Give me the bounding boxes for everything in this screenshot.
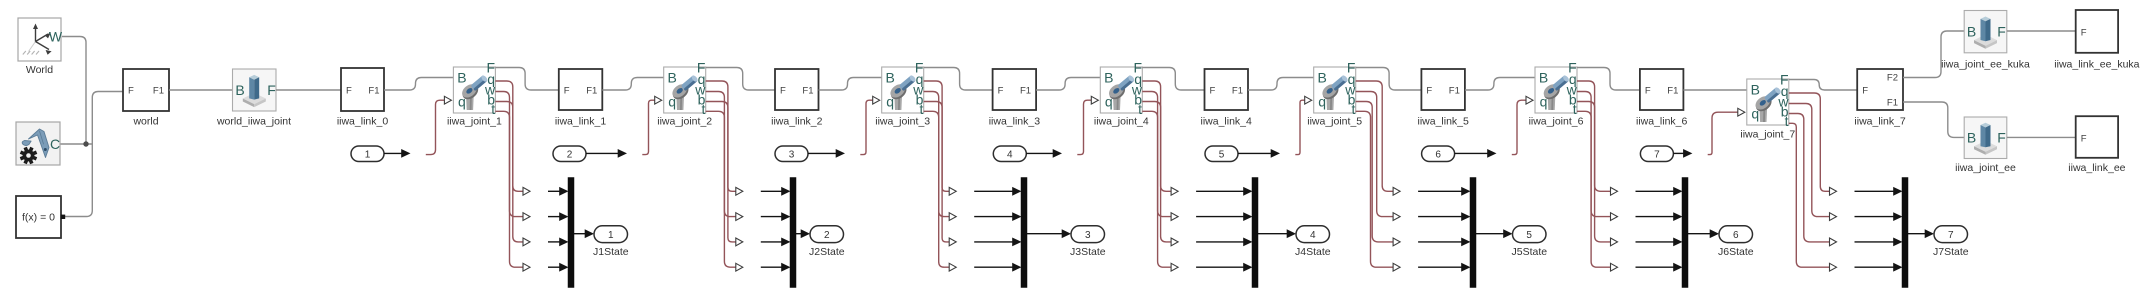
wire iiwa_link_5 F1 to iiwa_joint_6 B — [1465, 78, 1535, 91]
svg-text:J1State: J1State — [593, 246, 629, 258]
wire ps signal to iiwa_joint_2 q — [642, 100, 654, 154]
wire iiwa_joint_6 F to iiwa_link_6 F — [1577, 68, 1640, 91]
wire iiwa_joint_5 t to mux — [1356, 111, 1394, 267]
svg-text:F1: F1 — [1667, 86, 1678, 97]
wire ps signal to iiwa_joint_1 q — [426, 100, 445, 154]
block iiwa_link_0 — [337, 68, 389, 127]
mux J2 — [790, 178, 796, 288]
svg-text:iiwa_joint_ee: iiwa_joint_ee — [1955, 162, 2016, 174]
wire iiwa_joint_1 t to mux — [495, 111, 523, 267]
svg-text:iiwa_link_1: iiwa_link_1 — [555, 115, 607, 127]
svg-text:q: q — [1318, 93, 1326, 109]
svg-text:q: q — [886, 93, 894, 109]
wire signal into mux J7 — [1855, 266, 1896, 268]
svg-text:F1: F1 — [1232, 86, 1243, 97]
block iiwa_link_ee — [2068, 116, 2125, 174]
wire signal into mux J1 — [548, 241, 561, 243]
mux J3 — [1021, 178, 1027, 288]
mux J5 — [1470, 178, 1476, 288]
wire signal into mux J7 — [1855, 241, 1896, 243]
block world — [123, 69, 169, 127]
svg-text:F: F — [1645, 86, 1651, 97]
svg-text:B: B — [1104, 69, 1113, 85]
svg-text:q: q — [1751, 105, 1759, 121]
svg-text:4: 4 — [1310, 230, 1316, 241]
wire Mechanism C to bus — [60, 143, 92, 145]
wire signal into mux J1 — [548, 190, 561, 192]
wire signal into mux J4 — [1196, 241, 1245, 243]
wire signal into mux J6 — [1636, 216, 1676, 218]
svg-text:F1: F1 — [1887, 97, 1898, 108]
wire signal into mux J4 — [1196, 190, 1245, 192]
wire iiwa_link_7 F1 to iiwa_joint_ee B — [1903, 102, 1964, 137]
svg-text:World: World — [26, 64, 53, 76]
svg-text:F1: F1 — [153, 86, 164, 97]
mux J1 — [568, 178, 574, 288]
mux J6 — [1682, 178, 1688, 288]
wire World W to bus — [62, 37, 86, 145]
link block iiwa_link_1 — [555, 69, 607, 127]
wire iiwa_joint_5 w to mux — [1356, 92, 1394, 217]
svg-text:B: B — [1967, 130, 1976, 146]
svg-text:q: q — [458, 93, 466, 109]
svg-text:W: W — [49, 29, 63, 45]
wire iiwa_joint_3 b to mux — [924, 102, 950, 242]
svg-text:F1: F1 — [1449, 86, 1460, 97]
wire iiwa_joint_7 q to mux — [1789, 93, 1830, 191]
wire iiwa_joint_2 q to mux — [706, 81, 737, 191]
wire inport 7 arrow — [1673, 152, 1684, 154]
wire iiwa_link_2 F1 to iiwa_joint_3 B — [819, 78, 882, 91]
wire world F1 to world_iiwa_joint B — [169, 89, 233, 91]
svg-text:iiwa_link_ee: iiwa_link_ee — [2068, 162, 2125, 174]
outport J4State — [1296, 226, 1330, 243]
svg-text:F: F — [780, 86, 786, 97]
wire iiwa_link_0 F1 to iiwa_joint_1 B — [384, 78, 453, 91]
wire ps signal to iiwa_joint_3 q — [860, 100, 872, 154]
wire inport 3 arrow — [808, 152, 837, 154]
svg-text:B: B — [1967, 24, 1976, 40]
wire ps signal to iiwa_joint_6 q — [1512, 100, 1526, 154]
wire iiwa_joint_2 t to mux — [706, 111, 737, 267]
svg-text:J6State: J6State — [1718, 246, 1754, 258]
joint block iiwa_joint_7 — [1740, 72, 1795, 141]
outport J1State — [594, 226, 628, 243]
wire mux to outport J3State — [1027, 233, 1063, 235]
inport 1 — [351, 146, 384, 162]
wire signal into mux J2 — [761, 266, 783, 268]
wire iiwa_joint_4 q to mux — [1142, 81, 1171, 191]
wire mux to outport J1State — [574, 233, 586, 235]
wire signal into mux J2 — [761, 190, 783, 192]
wire signal into mux J5 — [1418, 216, 1463, 218]
wire iiwa_joint_1 w to mux — [495, 92, 523, 217]
joint block iiwa_joint_6 — [1529, 60, 1584, 128]
wire iiwa_joint_4 F to iiwa_link_4 F — [1142, 68, 1204, 91]
wire iiwa_joint_2 b to mux — [706, 102, 737, 242]
svg-text:5: 5 — [1219, 149, 1225, 160]
svg-text:F: F — [2081, 133, 2087, 144]
svg-text:4: 4 — [1007, 149, 1013, 160]
svg-text:F: F — [2081, 28, 2087, 39]
wire iiwa_joint_6 w to mux — [1577, 92, 1611, 217]
joint block iiwa_joint_1 — [447, 60, 502, 128]
svg-text:iiwa_joint_2: iiwa_joint_2 — [657, 116, 712, 128]
block Mechanism Configuration — [16, 122, 60, 165]
wire signal into mux J2 — [761, 216, 783, 218]
svg-text:F: F — [564, 86, 570, 97]
wire iiwa_joint_5 F to iiwa_link_5 F — [1356, 68, 1422, 91]
wire mux to outport J4State — [1258, 233, 1288, 235]
wire inport 2 arrow — [586, 152, 619, 154]
svg-text:F1: F1 — [1020, 86, 1031, 97]
svg-text:F: F — [267, 82, 276, 98]
wire signal into mux J1 — [548, 216, 561, 218]
inport 3 — [775, 146, 808, 162]
wire signal into mux J7 — [1855, 190, 1896, 192]
svg-text:iiwa_joint_4: iiwa_joint_4 — [1094, 116, 1149, 128]
wire iiwa_joint_7 b to mux — [1789, 114, 1830, 242]
svg-text:B: B — [457, 69, 466, 85]
wire iiwa_joint_4 t to mux — [1142, 111, 1171, 267]
wire iiwa_joint_3 w to mux — [924, 92, 950, 217]
wire signal into mux J3 — [974, 266, 1014, 268]
svg-text:B: B — [1318, 69, 1327, 85]
svg-text:q: q — [668, 93, 676, 109]
link block iiwa_link_5 — [1418, 69, 1470, 127]
wire iiwa_joint_1 q to mux — [495, 81, 523, 191]
block iiwa_link_ee_kuka — [2054, 10, 2139, 71]
svg-text:2: 2 — [824, 230, 830, 241]
svg-text:J2State: J2State — [809, 246, 845, 258]
svg-text:q: q — [1540, 93, 1548, 109]
svg-text:5: 5 — [1526, 230, 1532, 241]
wire iiwa_joint_1 F to iiwa_link_1 F — [495, 68, 558, 91]
svg-text:iiwa_joint_6: iiwa_joint_6 — [1529, 116, 1584, 128]
wire iiwa_joint_7 t to mux — [1789, 123, 1830, 267]
svg-text:F: F — [1210, 86, 1216, 97]
wire signal into mux J4 — [1196, 266, 1245, 268]
wire fx output up to world F — [65, 92, 123, 217]
wire signal into mux J5 — [1418, 190, 1463, 192]
link block iiwa_link_7 — [1854, 69, 1906, 127]
svg-text:iiwa_joint_1: iiwa_joint_1 — [447, 116, 502, 128]
wire signal into mux J2 — [761, 241, 783, 243]
wire inport 5 arrow — [1238, 152, 1272, 154]
svg-text:J7State: J7State — [1933, 246, 1969, 258]
wire signal into mux J6 — [1636, 266, 1676, 268]
junction bus node — [83, 141, 88, 146]
svg-text:F1: F1 — [368, 86, 379, 97]
wire ps signal to iiwa_joint_5 q — [1295, 100, 1304, 154]
svg-text:7: 7 — [1654, 149, 1660, 160]
joint block iiwa_joint_4 — [1094, 60, 1149, 128]
wire signal into mux J4 — [1196, 216, 1245, 218]
svg-text:2: 2 — [567, 149, 573, 160]
block iiwa_joint_ee (weld) — [1955, 117, 2016, 174]
joint block iiwa_joint_3 — [875, 60, 930, 128]
link block iiwa_link_3 — [989, 69, 1041, 127]
wire iiwa_link_1 F1 to iiwa_joint_2 B — [602, 78, 663, 91]
wire inport 1 arrow — [384, 152, 403, 154]
outport J7State — [1934, 226, 1968, 243]
wire iiwa_joint_6 q to mux — [1577, 81, 1611, 191]
wire mux to outport J2State — [796, 233, 802, 235]
svg-text:F: F — [1862, 86, 1868, 97]
svg-text:iiwa_joint_ee_kuka: iiwa_joint_ee_kuka — [1941, 59, 2030, 71]
wire ps signal to iiwa_joint_4 q — [1077, 100, 1091, 154]
outport J3State — [1071, 226, 1105, 243]
link block iiwa_link_4 — [1201, 69, 1253, 127]
wire iiwa_joint_6 b to mux — [1577, 102, 1611, 242]
svg-text:B: B — [1751, 81, 1760, 97]
svg-text:iiwa_link_3: iiwa_link_3 — [989, 115, 1041, 127]
wire iiwa_joint_3 F to iiwa_link_3 F — [924, 68, 993, 91]
block world_iiwa_joint (weld) — [216, 69, 291, 127]
svg-text:iiwa_joint_7: iiwa_joint_7 — [1740, 129, 1795, 141]
inport 7 — [1640, 146, 1673, 162]
wire iiwa_link_6 F1 to iiwa_joint_7 B — [1683, 89, 1746, 91]
svg-text:F: F — [1997, 24, 2006, 40]
wire iiwa_joint_4 b to mux — [1142, 102, 1171, 242]
svg-text:6: 6 — [1733, 230, 1739, 241]
wire signal into mux J3 — [974, 190, 1014, 192]
wire iiwa_link_3 F1 to iiwa_joint_4 B — [1036, 78, 1100, 91]
svg-text:iiwa_link_5: iiwa_link_5 — [1418, 115, 1470, 127]
wire iiwa_joint_7 F to iiwa_link_7 F — [1789, 80, 1857, 91]
svg-text:F: F — [128, 86, 134, 97]
inport 6 — [1422, 146, 1455, 162]
wire signal into mux J3 — [974, 216, 1014, 218]
joint block iiwa_joint_2 — [657, 60, 712, 128]
mux J7 — [1902, 178, 1908, 288]
wire inport 6 arrow — [1455, 152, 1489, 154]
wire iiwa_link_7 F2 to iiwa_joint_ee_kuka B — [1903, 31, 1964, 78]
svg-text:iiwa_link_2: iiwa_link_2 — [771, 115, 823, 127]
wire iiwa_joint_7 w to mux — [1789, 104, 1830, 217]
svg-text:F1: F1 — [802, 86, 813, 97]
svg-text:f(x) = 0: f(x) = 0 — [22, 212, 55, 224]
svg-text:C: C — [50, 136, 60, 152]
svg-text:iiwa_link_7: iiwa_link_7 — [1854, 115, 1906, 127]
svg-text:iiwa_joint_3: iiwa_joint_3 — [875, 116, 930, 128]
svg-text:iiwa_link_6: iiwa_link_6 — [1636, 115, 1688, 127]
wire mux to outport J6State — [1688, 233, 1711, 235]
block Solver Configuration f(x)=0 — [16, 196, 65, 238]
svg-text:1: 1 — [365, 149, 371, 160]
svg-text:world: world — [132, 115, 158, 127]
svg-text:B: B — [886, 69, 895, 85]
svg-text:iiwa_link_4: iiwa_link_4 — [1201, 115, 1253, 127]
wire mux to outport J7State — [1908, 233, 1926, 235]
block iiwa_joint_ee_kuka (weld) — [1941, 11, 2030, 71]
svg-text:iiwa_link_0: iiwa_link_0 — [337, 115, 389, 127]
mux J4 — [1252, 178, 1258, 288]
svg-text:t: t — [1785, 113, 1789, 129]
svg-text:B: B — [235, 82, 244, 98]
svg-text:B: B — [1539, 69, 1548, 85]
wire signal into mux J6 — [1636, 190, 1676, 192]
wire world_iiwa_joint F to iiwa_link_0 F — [276, 89, 341, 91]
svg-text:J5State: J5State — [1511, 246, 1547, 258]
wire iiwa_joint_ee_kuka F to iiwa_link_ee_kuka F — [2007, 30, 2076, 32]
svg-text:F: F — [998, 86, 1004, 97]
outport J2State — [810, 226, 844, 243]
svg-text:J3State: J3State — [1070, 246, 1106, 258]
outport J6State — [1719, 226, 1753, 243]
inport 4 — [993, 146, 1026, 162]
svg-text:q: q — [1105, 93, 1113, 109]
block World (world frame) — [18, 18, 63, 76]
svg-text:1: 1 — [608, 230, 614, 241]
wire signal into mux J5 — [1418, 241, 1463, 243]
wire iiwa_joint_5 q to mux — [1356, 81, 1394, 191]
wire mux to outport J5State — [1476, 233, 1505, 235]
svg-text:F2: F2 — [1887, 73, 1898, 84]
wire inport 4 arrow — [1026, 152, 1054, 154]
joint block iiwa_joint_5 — [1307, 60, 1362, 128]
svg-text:3: 3 — [1085, 230, 1091, 241]
svg-text:iiwa_link_ee_kuka: iiwa_link_ee_kuka — [2054, 59, 2139, 71]
svg-text:F1: F1 — [586, 86, 597, 97]
wire iiwa_joint_4 w to mux — [1142, 92, 1171, 217]
wire ps signal to iiwa_joint_7 q — [1708, 112, 1738, 154]
link block iiwa_link_2 — [771, 69, 823, 127]
svg-text:F: F — [1997, 130, 2006, 146]
svg-text:7: 7 — [1948, 230, 1954, 241]
wire iiwa_joint_3 t to mux — [924, 111, 950, 267]
svg-text:world_iiwa_joint: world_iiwa_joint — [216, 115, 291, 127]
wire signal into mux J6 — [1636, 241, 1676, 243]
wire signal into mux J5 — [1418, 266, 1463, 268]
svg-text:3: 3 — [789, 149, 795, 160]
wire iiwa_joint_2 w to mux — [706, 92, 737, 217]
wire iiwa_link_4 F1 to iiwa_joint_5 B — [1248, 78, 1314, 91]
wire iiwa_joint_3 q to mux — [924, 81, 950, 191]
wire signal into mux J7 — [1855, 216, 1896, 218]
svg-text:F: F — [346, 86, 352, 97]
svg-text:J4State: J4State — [1295, 246, 1331, 258]
wire iiwa_joint_1 b to mux — [495, 102, 523, 242]
wire iiwa_joint_6 t to mux — [1577, 111, 1611, 267]
wire iiwa_joint_2 F to iiwa_link_2 F — [706, 68, 775, 91]
wire iiwa_joint_ee F to iiwa_link_ee F — [2007, 136, 2076, 138]
inport 5 — [1205, 146, 1238, 162]
inport 2 — [553, 146, 586, 162]
wire signal into mux J1 — [548, 266, 561, 268]
wire iiwa_joint_5 b to mux — [1356, 102, 1394, 242]
svg-text:6: 6 — [1435, 149, 1441, 160]
svg-text:B: B — [668, 69, 677, 85]
link block iiwa_link_6 — [1636, 69, 1688, 127]
svg-text:iiwa_joint_5: iiwa_joint_5 — [1307, 116, 1362, 128]
outport J5State — [1513, 226, 1547, 243]
svg-text:F: F — [1426, 86, 1432, 97]
wire signal into mux J3 — [974, 241, 1014, 243]
